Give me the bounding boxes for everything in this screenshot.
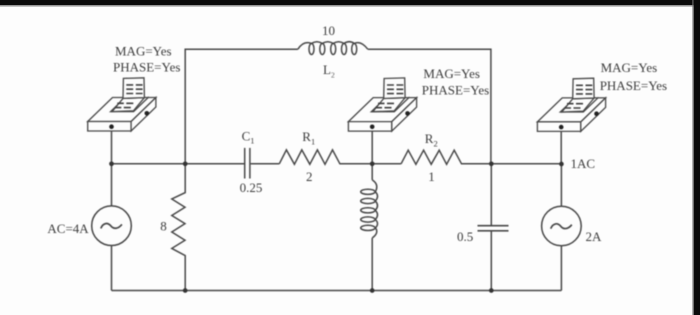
svg-text:2A: 2A [586, 229, 603, 244]
svg-text:1AC: 1AC [571, 156, 596, 171]
svg-text:0.25: 0.25 [240, 180, 263, 195]
svg-text:MAG=Yes: MAG=Yes [423, 66, 480, 81]
svg-text:MAG=Yes: MAG=Yes [115, 43, 172, 58]
svg-text:AC=4A: AC=4A [47, 221, 89, 236]
svg-text:PHASE=Yes: PHASE=Yes [600, 78, 667, 93]
svg-text:10: 10 [322, 23, 335, 38]
svg-text:PHASE=Yes: PHASE=Yes [422, 82, 489, 97]
svg-text:0.5: 0.5 [457, 229, 473, 244]
svg-text:8: 8 [160, 218, 167, 233]
svg-text:2: 2 [306, 169, 313, 184]
svg-text:PHASE=Yes: PHASE=Yes [113, 60, 180, 75]
svg-text:MAG=Yes: MAG=Yes [601, 60, 658, 75]
svg-text:1: 1 [428, 169, 435, 184]
